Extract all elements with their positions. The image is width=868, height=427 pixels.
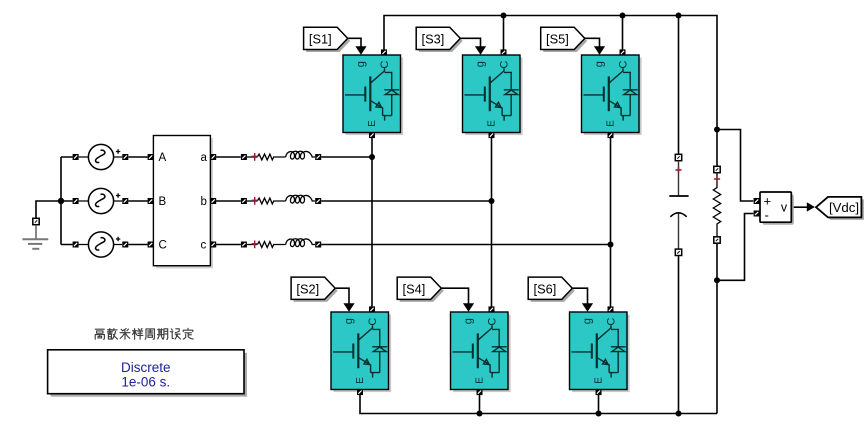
annotation Chinese label (vector strokes) bbox=[95, 328, 193, 339]
svg-text:+: + bbox=[764, 194, 772, 209]
IGBT S5 bbox=[582, 46, 642, 138]
IGBT S2 bbox=[331, 303, 391, 395]
resistor Rload bbox=[713, 166, 720, 243]
wire S4 emitter stub bbox=[479, 394, 481, 414]
From tag S1 bbox=[304, 27, 351, 52]
wire bottom DC rail bbox=[360, 394, 717, 414]
wire phase b leg bbox=[491, 136, 493, 309]
AC source Vc bbox=[73, 232, 129, 257]
wire row c to leg bbox=[321, 244, 610, 246]
wire S5 gate elbow bbox=[584, 38, 599, 47]
svg-text:Discrete: Discrete bbox=[121, 360, 171, 375]
svg-text:[S1]: [S1] bbox=[309, 32, 332, 47]
From tag S5 bbox=[541, 27, 588, 52]
wire S4 gate elbow bbox=[441, 288, 468, 304]
svg-text:a: a bbox=[201, 152, 208, 164]
wire S6 gate elbow bbox=[572, 288, 587, 304]
node phase c bbox=[608, 242, 614, 248]
node source bus bbox=[58, 198, 64, 204]
From tag S3 bbox=[416, 27, 463, 52]
wire block out c bbox=[216, 244, 241, 246]
AC source Va bbox=[73, 144, 129, 169]
node DC- branch bbox=[714, 277, 720, 283]
node bottom rail / capacitor bbox=[676, 411, 682, 417]
IGBT S4 bbox=[451, 303, 511, 395]
wire row a to leg bbox=[321, 156, 372, 158]
IGBT S1 bbox=[343, 46, 403, 138]
node bottom rail / S4 E bbox=[477, 411, 483, 417]
wire source C to block bbox=[128, 244, 147, 246]
svg-text:B: B bbox=[159, 196, 167, 208]
wire resistor top stub bbox=[716, 130, 718, 167]
svg-text:c: c bbox=[201, 240, 207, 252]
wire voltmeter out bbox=[791, 206, 807, 208]
IGBT S6 bbox=[570, 303, 630, 395]
IGBT S3 bbox=[463, 46, 523, 138]
wire to ground bbox=[36, 201, 61, 218]
wire S1 gate elbow bbox=[347, 38, 361, 47]
From tag S2 bbox=[291, 277, 338, 302]
svg-text:A: A bbox=[159, 152, 167, 164]
wire top DC rail bbox=[384, 16, 717, 130]
wire resistor bottom to node bbox=[716, 243, 718, 413]
Discrete powergui block bbox=[48, 350, 247, 397]
svg-text:1e-06 s.: 1e-06 s. bbox=[121, 374, 170, 389]
node top rail / S5 C bbox=[620, 13, 626, 19]
ground bbox=[22, 218, 48, 249]
svg-text:-: - bbox=[765, 208, 769, 223]
RL branch a bbox=[241, 151, 321, 161]
RL branch c bbox=[241, 239, 321, 249]
capacitor C1 bbox=[669, 154, 688, 255]
voltage measurement block bbox=[754, 192, 794, 225]
wire capacitor top bbox=[678, 16, 680, 155]
node phase b bbox=[489, 198, 495, 204]
wire phase a leg bbox=[371, 136, 373, 309]
wire S3 collector stub bbox=[503, 16, 505, 53]
svg-text:[S2]: [S2] bbox=[296, 282, 319, 297]
node phase a bbox=[369, 154, 375, 160]
three-phase V-I measurement block bbox=[148, 136, 217, 269]
svg-text:[S3]: [S3] bbox=[422, 32, 445, 47]
svg-text:[Vdc]: [Vdc] bbox=[829, 200, 859, 215]
node DC+ branch bbox=[714, 127, 720, 133]
wire row b to leg bbox=[321, 200, 491, 202]
svg-text:b: b bbox=[201, 196, 207, 208]
wire capacitor bottom bbox=[678, 256, 680, 414]
Goto tag Vdc bbox=[816, 197, 864, 220]
wire to voltmeter minus bbox=[717, 214, 753, 281]
wire S5 collector stub bbox=[622, 16, 624, 53]
wire S3 gate elbow bbox=[460, 38, 481, 47]
node bottom rail / S6 E bbox=[596, 411, 602, 417]
wire block out b bbox=[216, 200, 241, 202]
wire S6 emitter stub bbox=[598, 394, 600, 414]
AC source Vb bbox=[73, 188, 129, 213]
RL branch b bbox=[241, 195, 321, 205]
svg-text:[S4]: [S4] bbox=[403, 282, 426, 297]
svg-text:v: v bbox=[781, 201, 788, 215]
svg-text:[S6]: [S6] bbox=[534, 282, 557, 297]
wire phase c leg bbox=[610, 136, 612, 309]
wire S2 gate elbow bbox=[335, 288, 349, 304]
From tag S4 bbox=[397, 277, 444, 302]
node top rail / S3 C bbox=[501, 13, 507, 19]
wire source A to block bbox=[128, 156, 147, 158]
From tag S6 bbox=[528, 277, 575, 302]
wire to voltmeter plus bbox=[717, 130, 753, 202]
wire left bus bbox=[61, 157, 73, 245]
svg-text:C: C bbox=[159, 240, 167, 252]
node top rail / capacitor bbox=[676, 13, 682, 19]
wire block out a bbox=[216, 156, 241, 158]
wire source B to block bbox=[128, 200, 147, 202]
arrowhead into Vdc tag bbox=[807, 202, 815, 211]
svg-text:[S5]: [S5] bbox=[546, 32, 569, 47]
